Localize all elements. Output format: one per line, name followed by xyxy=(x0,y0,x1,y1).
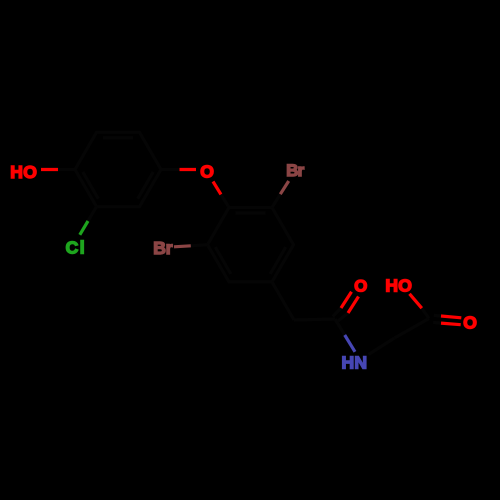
amide C=O double bond line 2 xyxy=(338,313,348,321)
wire Oether-ringB dark half xyxy=(221,195,229,208)
benzene ring A (phenol ring) xyxy=(75,132,161,206)
wire acidC-OH red half xyxy=(410,294,422,308)
acid C=O double bond line 1 xyxy=(434,314,441,318)
wire CH2-carbonylC xyxy=(294,319,335,320)
label Cl xyxy=(66,237,85,257)
svg-text:O: O xyxy=(463,312,477,332)
wire ringB-CH2 xyxy=(272,282,294,320)
svg-text:B: B xyxy=(286,161,298,180)
svg-text:O: O xyxy=(200,161,214,181)
wire C3-Cl green half xyxy=(80,221,88,235)
svg-text:H: H xyxy=(10,162,23,182)
svg-text:r: r xyxy=(166,238,173,258)
svg-text:C: C xyxy=(66,237,79,257)
wire C-BrTop brown half xyxy=(280,181,288,194)
svg-text:H: H xyxy=(385,275,398,295)
svg-text:O: O xyxy=(398,275,412,295)
wire C4-Oether dark half xyxy=(161,168,180,171)
svg-text:B: B xyxy=(153,238,166,258)
benzene ring B (dibromo ring) xyxy=(208,208,294,282)
wire acidC-OH dark half xyxy=(422,308,429,318)
wire C-BrLeft brown half xyxy=(174,246,191,247)
label Br (top) xyxy=(286,161,304,180)
wire alphaC-acidC xyxy=(395,319,430,339)
wire C4-Oether red half xyxy=(180,168,197,171)
acid C=O double bond line 2 xyxy=(433,321,441,325)
wire C3-Cl dark half xyxy=(88,207,97,221)
wire C-BrTop dark half xyxy=(272,194,280,207)
wire carbonylC-N blue half xyxy=(345,335,355,352)
svg-text:O: O xyxy=(354,277,367,296)
svg-text:r: r xyxy=(298,161,305,180)
svg-text:H: H xyxy=(342,352,355,372)
label HN xyxy=(342,352,368,372)
label HO (phenol) xyxy=(10,162,37,182)
wire Oether-ringB red half xyxy=(213,182,221,195)
wire carbonylC-N dark half xyxy=(335,319,345,335)
wire C1-OH red half xyxy=(41,168,58,171)
label HO (acid) xyxy=(385,275,412,295)
wire C-BrLeft dark half xyxy=(191,245,208,246)
svg-text:O: O xyxy=(23,162,37,182)
amide C=O double bond line 1 xyxy=(333,308,341,317)
label Br (left) xyxy=(153,238,173,258)
wire C1-OH dark half xyxy=(58,168,75,171)
svg-text:l: l xyxy=(80,237,85,257)
svg-text:N: N xyxy=(354,352,367,372)
wire N-alphaC xyxy=(369,338,395,355)
